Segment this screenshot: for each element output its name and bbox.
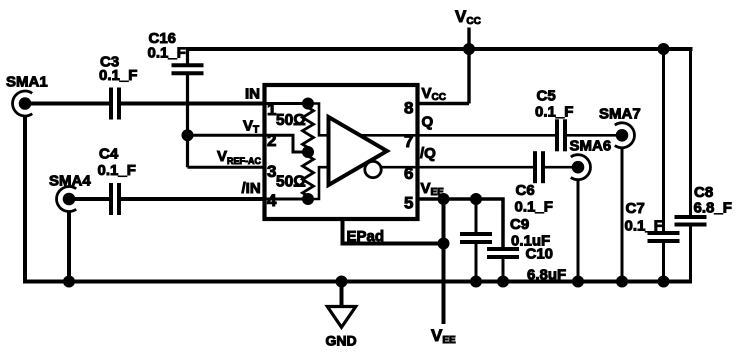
wire comparator output Q to pin 7 [360,134,418,137]
wire IC pin 2 internal step [265,135,309,152]
comparator triangle [329,117,388,185]
wire SMA7 ground lead [621,147,624,282]
svg-text:0.1_F: 0.1_F [515,199,553,216]
wire ground bottom rail [23,280,692,284]
connector SMA6 [571,155,591,180]
svg-text:VT: VT [243,118,259,136]
wire C16 bottom plate down to VREF-AC corner [186,73,189,167]
connector SMA7 [615,123,635,148]
wire /IN net: C4 right plate to IC pin 4 [121,197,265,201]
connector SMA4 [57,186,77,211]
wire to comparator inverting input [308,167,329,199]
wire IN net: SMA1 to C3 left plate [25,102,110,106]
connector SMA1 [13,91,33,116]
svg-text:0.1_F: 0.1_F [98,162,136,179]
junction EPad / VEE lead [438,238,450,250]
svg-text:SMA6: SMA6 [570,138,612,155]
junction SMA4 / ground rail [63,276,75,288]
wire VT net to IC pin 2 [188,134,265,137]
svg-text:VREF-AC: VREF-AC [217,148,262,166]
svg-text:/IN: /IN [242,180,261,197]
svg-text:VEE: VEE [431,326,456,346]
ground symbol triangle [327,307,356,328]
capacitor C10 [487,249,519,257]
wire C7 top lead from VCC rail [662,49,665,233]
power VCC terminal lead [467,28,470,104]
svg-text:C8: C8 [694,184,713,201]
svg-text:5: 5 [404,194,413,213]
svg-text:IN: IN [245,86,260,103]
inverting output bubble [365,161,381,177]
svg-text:VCC: VCC [455,7,481,27]
wire bubble to pin 6 /Q [381,166,418,169]
junction C7 / VCC rail [658,43,670,55]
wire C9 bottom lead [475,242,478,282]
svg-text:0.1_F: 0.1_F [535,104,573,121]
svg-text:50Ω: 50Ω [276,112,306,129]
wire IC pin 8 to VCC lead [418,102,470,106]
svg-text:0.1_F: 0.1_F [625,218,663,235]
junction resistor bottom / pin4 [302,193,314,205]
wire VCC top rail [186,47,693,51]
wire C16 top plate to VCC rail [186,47,189,65]
svg-text:SMA4: SMA4 [49,173,91,190]
capacitor C4 [111,183,119,215]
capacitor C16 [172,65,204,73]
junction SMA7 / ground rail [616,276,628,288]
wire /Q net: IC pin 6 to C6 [418,166,534,169]
junction C10 / ground rail [497,276,509,288]
capacitor C9 [460,234,492,242]
wire SMA6 ground lead [577,179,580,282]
capacitor C7 [648,233,680,241]
junction VCC rail / VCC lead [463,43,475,55]
wire IN net: C3 right plate to IC pin 1 [121,102,265,106]
junction VEE / C9 [470,193,482,205]
capacitor C3 [111,88,119,120]
svg-text:VCC: VCC [422,85,446,103]
wire EPad to VEE lead [343,217,444,244]
junction C7 / ground rail [658,276,670,288]
op-amp U1 package box [265,85,418,219]
svg-text:C10: C10 [526,246,554,263]
svg-text:50Ω: 50Ω [276,174,306,191]
resistor 50ohm upper [303,104,314,153]
wire to comparator noninverting input [308,104,329,136]
wire IC pin 1 internal [265,102,309,105]
svg-text:0.1_F: 0.1_F [99,67,137,84]
wire SMA1 ground lead [23,115,27,284]
power VEE terminal lead [442,199,446,324]
ground symbol stub [340,282,344,307]
svg-text:C5: C5 [537,88,556,105]
wire Q net: C5 to SMA7 [567,134,623,137]
wire C8 top lead from VCC rail corner [689,47,692,217]
svg-text:6.8_F: 6.8_F [694,200,732,217]
wire /IN net: SMA4 to C4 left plate [69,197,110,201]
svg-text:GND: GND [326,333,357,349]
junction ground rail / GND symbol [336,276,348,288]
wire C10 bottom lead [502,257,505,282]
wire Q net: IC pin 7 to C5 [418,134,556,137]
svg-text:8: 8 [404,99,413,118]
svg-text:C7: C7 [626,200,645,217]
junction C16/VT node [182,129,194,141]
wire IC pin 4 internal [265,198,309,201]
wire C7 bottom lead [662,241,665,282]
junction resistor top / pin1 [302,98,314,110]
junction C9 / ground rail [470,276,482,288]
capacitor C5 [557,119,565,151]
svg-text:0.1_F: 0.1_F [148,45,186,62]
svg-text:EPad: EPad [347,228,385,245]
svg-text:C9: C9 [510,216,529,233]
wire VEE net: IC pin 5 to C10 corner [418,199,504,248]
capacitor C6 [535,151,543,183]
capacitor C8 [675,217,707,225]
wire VREF-AC net to IC pin 3 [188,166,265,169]
svg-text:/Q: /Q [420,145,436,162]
junction VEE / VEE lead [438,193,450,205]
svg-text:SMA1: SMA1 [6,74,48,91]
svg-text:SMA7: SMA7 [599,106,641,123]
wire C9 top lead [475,199,478,234]
junction resistor midpoint / pin2 [302,146,314,158]
resistor 50ohm lower [303,152,314,199]
junction SMA6 / ground rail [572,276,584,288]
wire /Q net: C6 to SMA6 [545,166,579,169]
svg-text:C4: C4 [99,146,119,163]
svg-text:C6: C6 [516,182,535,199]
wire SMA4 ground lead [67,211,71,282]
wire C8 bottom lead [689,225,692,284]
svg-text:Q: Q [422,114,434,131]
